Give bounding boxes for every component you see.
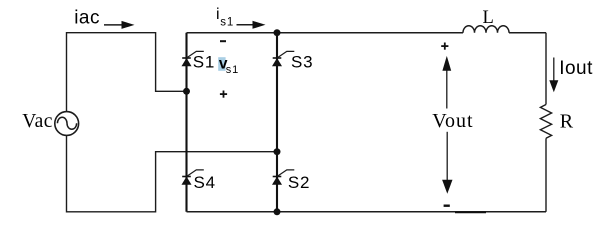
junction node B dot: [274, 148, 281, 155]
ac source Vac circle: [55, 112, 79, 136]
svg-text:S3: S3: [291, 53, 313, 72]
svg-text:S2: S2: [288, 173, 310, 192]
arrow Vout down: [446, 132, 448, 180]
svg-text:s1: s1: [220, 17, 234, 29]
ac source sine wave: [57, 117, 76, 129]
switch S4 cathode bar: [182, 176, 191, 178]
svg-text:iac: iac: [74, 7, 100, 28]
switch S3 cathode bar: [273, 57, 282, 59]
arrow iac: [104, 24, 124, 26]
resistor R zigzag: [540, 105, 551, 139]
svg-text:R: R: [560, 111, 574, 133]
label v_s1 highlighted v: [218, 57, 225, 71]
wire right side below resistor: [545, 138, 547, 212]
plus sign of Vout: [441, 45, 448, 47]
switch S3 gate lever: [277, 51, 294, 58]
minus sign of Vout: [444, 205, 450, 207]
svg-text:i: i: [216, 6, 220, 23]
arrow Iout: [553, 58, 555, 81]
arrow Vout up: [446, 71, 448, 109]
switch S2 gate lever: [277, 170, 294, 177]
switch S1 triangle: [182, 59, 191, 66]
wire bottom rail: [187, 211, 547, 213]
switch S2 triangle: [273, 177, 282, 184]
wire top rail right of inductor: [509, 32, 546, 34]
svg-text:s1: s1: [226, 64, 239, 76]
switch S4 triangle: [182, 177, 191, 184]
wire right side down to resistor: [545, 33, 547, 105]
inductor L: [463, 26, 509, 33]
svg-text:S1: S1: [193, 53, 215, 72]
svg-text:S4: S4: [194, 173, 216, 192]
junction dot bottom of right leg: [274, 208, 281, 215]
svg-text:Iout: Iout: [559, 58, 593, 79]
wire left bridge leg: [185, 33, 187, 212]
svg-text:L: L: [483, 8, 494, 28]
wire bottom-left loop from Vac bottom to node B: [67, 135, 278, 212]
switch S4 gate lever: [187, 170, 204, 177]
arrow i_s1: [237, 24, 255, 26]
wire bottom rail overlap segment: [455, 211, 486, 213]
wire top-left loop from Vac top to node A: [67, 33, 187, 112]
switch S3 triangle: [273, 59, 282, 66]
minus sign of v_s1: [220, 40, 226, 42]
switch S2 cathode bar: [273, 176, 282, 178]
wire right bridge leg: [276, 33, 278, 212]
junction node A dot: [183, 88, 190, 95]
svg-text:Vac: Vac: [22, 111, 53, 132]
svg-text:Vout: Vout: [432, 110, 473, 132]
switch S1 cathode bar: [182, 57, 191, 59]
switch S1 gate lever: [187, 51, 204, 58]
junction dot top of right leg: [274, 29, 281, 36]
wire top rail: [187, 32, 464, 34]
plus sign of v_s1: [220, 93, 227, 95]
